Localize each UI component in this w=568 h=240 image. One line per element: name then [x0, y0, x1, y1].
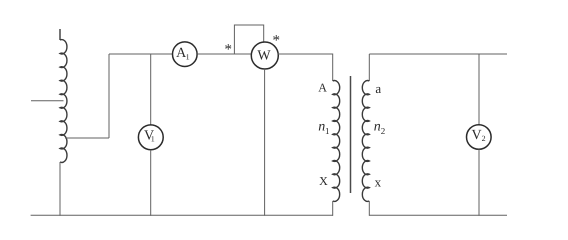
svg-text:1: 1: [151, 134, 155, 143]
ammeter A1: [173, 42, 198, 67]
wire: bottom right rail: [369, 214, 507, 216]
svg-text:2: 2: [381, 126, 386, 136]
wire: V1 branch lower: [150, 150, 152, 216]
svg-text:V: V: [471, 128, 481, 143]
transformer primary winding n1 (A-X): [333, 81, 340, 202]
svg-text:W: W: [257, 48, 271, 63]
svg-text:x: x: [375, 175, 382, 190]
voltmeter V1: [138, 125, 163, 150]
voltmeter V2: [467, 125, 492, 150]
svg-text:a: a: [375, 81, 381, 96]
wattmeter current-coil jumper: [234, 25, 263, 54]
wire: top right rail: [369, 53, 507, 55]
wire: wattmeter to transformer primary top: [277, 54, 332, 81]
wattmeter W: [251, 42, 278, 69]
transformer secondary winding n2 (a-x): [362, 81, 369, 202]
wire: V2 branch lower: [478, 149, 480, 215]
wire: secondary top lead: [368, 54, 370, 81]
transformer core: [350, 76, 352, 193]
wire: secondary bottom lead: [368, 201, 370, 216]
svg-text:2: 2: [482, 134, 486, 143]
wire: AC input line to variac tap: [31, 100, 64, 102]
svg-text:A: A: [318, 80, 327, 94]
wire: riser up to main top line: [108, 54, 110, 138]
svg-text:1: 1: [186, 52, 190, 61]
wire: variac bottom lead to bottom rail: [59, 162, 61, 216]
wire: V2 branch upper: [478, 54, 480, 125]
wire: variac wiper tap to riser: [65, 137, 109, 139]
wire: bottom left rail: [31, 214, 333, 216]
wire: V1 branch upper: [150, 54, 152, 125]
wire: ammeter to wattmeter: [197, 53, 251, 55]
svg-text:X: X: [319, 174, 328, 188]
svg-text:n: n: [374, 120, 381, 135]
svg-text:1: 1: [325, 126, 330, 136]
wire: wattmeter voltage tap to bottom rail: [264, 69, 266, 216]
svg-text:*: *: [224, 42, 232, 58]
wire: main top line to ammeter: [109, 53, 172, 55]
wire: primary bottom lead: [332, 201, 334, 216]
svg-text:*: *: [272, 33, 280, 49]
autotransformer T (variac) coil: [60, 29, 67, 162]
